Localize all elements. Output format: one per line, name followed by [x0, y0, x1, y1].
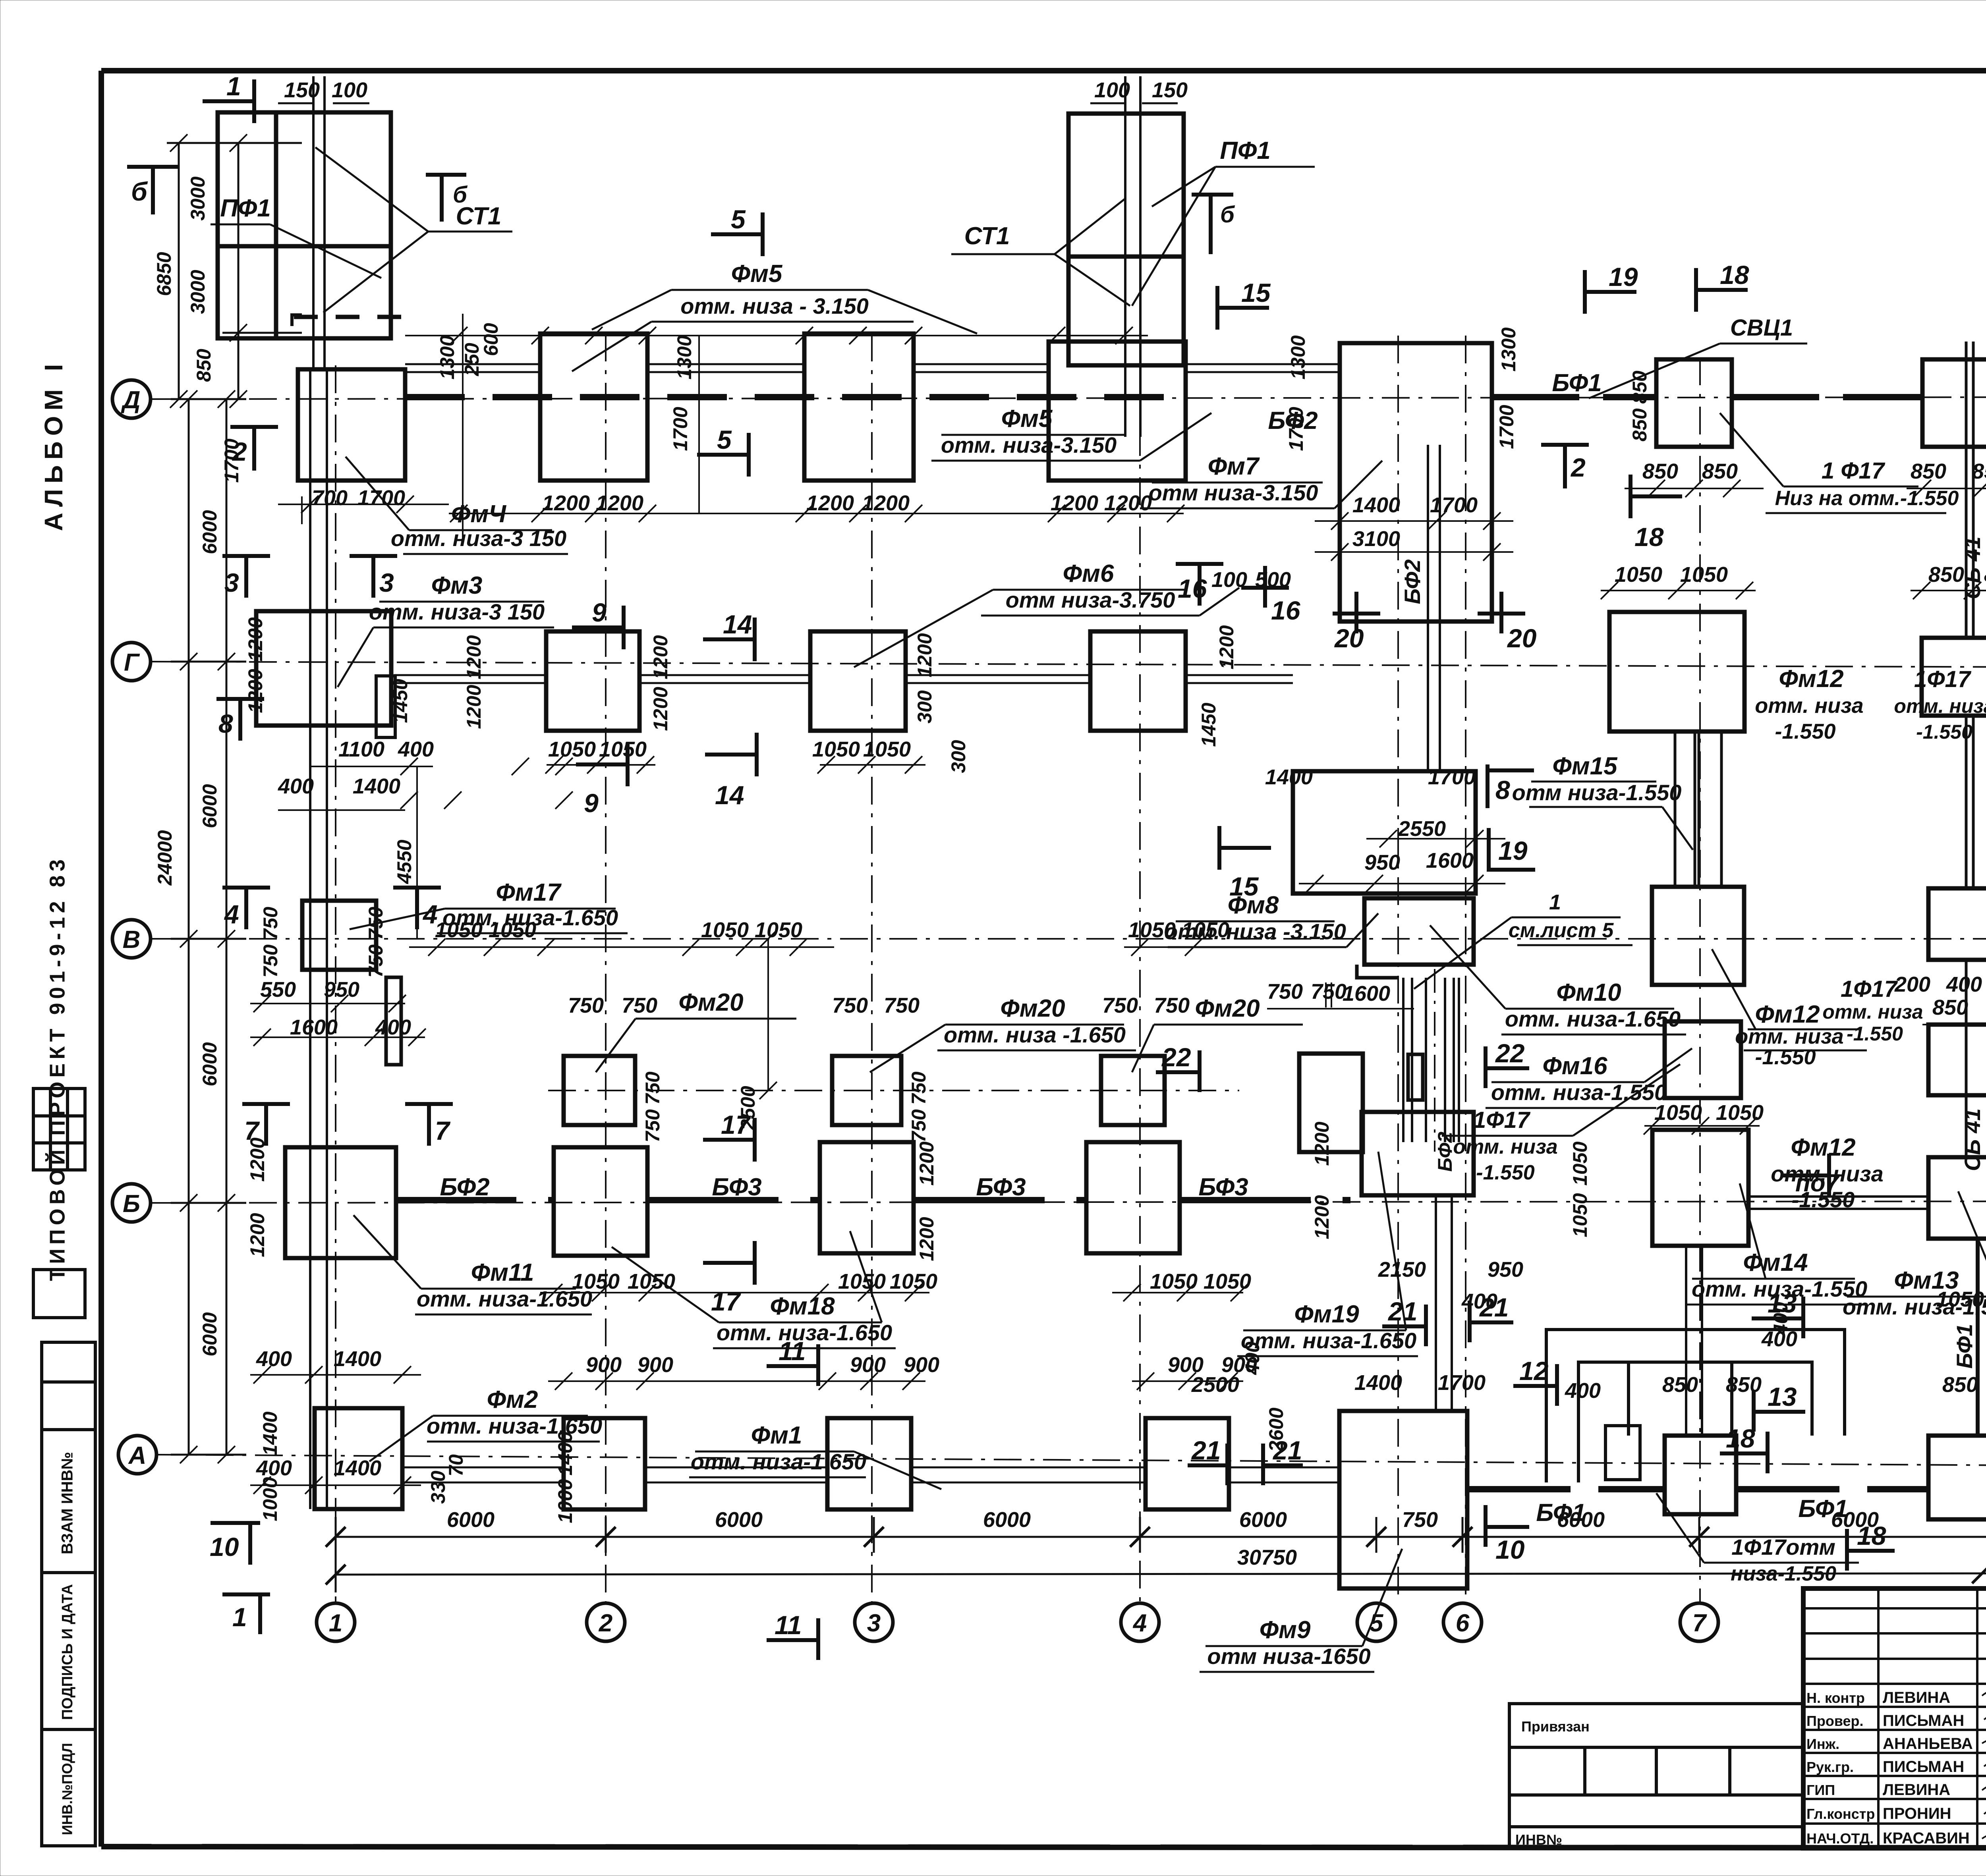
svg-text:150: 150 — [1152, 78, 1188, 102]
svg-text:1200: 1200 — [244, 669, 267, 713]
svg-text:А: А — [128, 1442, 147, 1469]
svg-text:1200: 1200 — [916, 1141, 938, 1185]
svg-text:150: 150 — [284, 78, 320, 102]
svg-text:750: 750 — [259, 907, 282, 940]
svg-text:7: 7 — [1692, 1610, 1707, 1637]
svg-text:6000: 6000 — [199, 1312, 221, 1356]
svg-text:ПОДПИСЬ И ДАТА: ПОДПИСЬ И ДАТА — [59, 1584, 76, 1720]
svg-text:Фм16: Фм16 — [1542, 1052, 1607, 1080]
left stamp column boxes — [33, 1089, 95, 1846]
beam по7 row Б twin — [1748, 1197, 1928, 1209]
svg-text:1300: 1300 — [673, 335, 695, 379]
svg-text:-1.550: -1.550 — [1916, 721, 1972, 743]
axis Б — [151, 1201, 1986, 1203]
marker 21 pair bottom — [1188, 1463, 1227, 1467]
svg-text:ЛЕВИНА: ЛЕВИНА — [1883, 1781, 1950, 1799]
svg-text:Привязан: Привязан — [1521, 1718, 1590, 1735]
block row Д axis8 — [1922, 359, 1986, 447]
svg-text:6000: 6000 — [199, 510, 221, 554]
svg-text:750: 750 — [908, 1071, 930, 1105]
svg-text:1300: 1300 — [1287, 335, 1309, 379]
block ФМ12 row Г axis7 — [1609, 612, 1745, 731]
svg-text:750: 750 — [832, 994, 868, 1017]
wall footing ПФ1 left — [218, 112, 391, 338]
row А twin beam lines — [402, 1467, 1339, 1482]
svg-text:750: 750 — [1267, 980, 1303, 1004]
marker 22 pair — [1156, 1070, 1200, 1074]
marker 9 — [572, 625, 624, 629]
svg-text:400: 400 — [375, 1015, 411, 1039]
svg-text:11: 11 — [779, 1336, 806, 1366]
svg-text:6000: 6000 — [447, 1508, 495, 1532]
svg-text:Фм13: Фм13 — [1894, 1267, 1959, 1294]
svg-text:9: 9 — [584, 788, 599, 818]
block row А axis8 — [1928, 1436, 1986, 1519]
marker 11 pair — [767, 1364, 818, 1368]
svg-text:1400: 1400 — [334, 1347, 381, 1371]
svg-text:ПФ1: ПФ1 — [220, 195, 270, 222]
svg-text:Фм3: Фм3 — [431, 572, 483, 599]
svg-text:1050: 1050 — [701, 918, 749, 942]
svg-text:300: 300 — [914, 690, 936, 724]
svg-text:БФ2: БФ2 — [1400, 559, 1425, 604]
svg-text:900: 900 — [638, 1353, 673, 1377]
extra axis/dim details — [548, 1090, 1239, 1091]
svg-text:1700: 1700 — [1495, 405, 1518, 449]
svg-text:70: 70 — [445, 1454, 467, 1476]
svg-text:750: 750 — [641, 1071, 664, 1105]
marker 19 #2 — [1489, 868, 1535, 872]
svg-text:ПИСЬМАН: ПИСЬМАН — [1883, 1758, 1964, 1776]
svg-text:Фм9: Фм9 — [1260, 1616, 1311, 1644]
svg-text:3: 3 — [224, 568, 239, 597]
svg-text:3: 3 — [867, 1610, 881, 1637]
svg-text:400: 400 — [256, 1347, 292, 1371]
svg-text:Б: Б — [123, 1190, 140, 1218]
small pier block — [1408, 1054, 1423, 1100]
block row А axis4 — [1146, 1418, 1229, 1509]
block row В axis8 — [1928, 888, 1986, 960]
block ФМ20 #2 — [832, 1056, 901, 1125]
svg-text:1050: 1050 — [1716, 1101, 1764, 1125]
marker 2 right — [1541, 443, 1589, 447]
svg-text:750: 750 — [1402, 1508, 1438, 1532]
svg-text:БФ3: БФ3 — [1198, 1173, 1248, 1201]
marker 10 bottom left — [211, 1521, 260, 1525]
beam БФ2 row Д heavy dashes — [405, 394, 1186, 400]
svg-text:1Ф17отм: 1Ф17отм — [1731, 1534, 1835, 1559]
svg-text:100: 100 — [332, 78, 367, 102]
svg-text:3: 3 — [379, 568, 394, 597]
marker 1 top — [203, 99, 254, 103]
svg-text:отм низа-3.150: отм низа-3.150 — [1149, 480, 1318, 505]
svg-text:550: 550 — [260, 978, 296, 1002]
svg-text:Инж.: Инж. — [1806, 1736, 1839, 1752]
block ФМ18 row Б — [554, 1147, 647, 1256]
svg-text:1: 1 — [1549, 890, 1561, 914]
svg-text:1200: 1200 — [463, 635, 485, 679]
svg-text:Фм12: Фм12 — [1755, 1001, 1820, 1028]
svg-text:1200: 1200 — [463, 685, 485, 729]
wall footing ПФ1 right — [1068, 114, 1184, 365]
left dimension chain 24000/6000 — [171, 399, 246, 1455]
svg-text:950: 950 — [1488, 1258, 1523, 1282]
svg-text:1050: 1050 — [1204, 1270, 1251, 1293]
block row Г axis1 — [256, 611, 391, 726]
svg-text:22: 22 — [1161, 1042, 1191, 1072]
block ФМ11 row Б axis1 — [285, 1147, 396, 1258]
block ФМ20 #1 — [564, 1056, 635, 1125]
svg-text:2: 2 — [232, 437, 247, 466]
block ФМ17 row В axis1 — [302, 901, 376, 970]
svg-text:7: 7 — [244, 1116, 260, 1145]
svg-text:СТ1: СТ1 — [964, 222, 1010, 250]
svg-text:7: 7 — [435, 1116, 451, 1145]
marker 3 left pair — [222, 554, 270, 558]
block row А axis7 — [1665, 1436, 1736, 1514]
svg-text:отм. низа: отм. низа — [1894, 695, 1986, 717]
svg-text:6: 6 — [1456, 1610, 1470, 1637]
axis 4 — [1139, 83, 1141, 1603]
svg-text:3000: 3000 — [187, 270, 209, 314]
svg-text:750: 750 — [908, 1109, 930, 1143]
svg-text:отм. низа: отм. низа — [1735, 1025, 1843, 1048]
svg-text:СБ 41: СБ 41 — [1960, 1108, 1985, 1171]
svg-text:ТИПОВОЙ ПРОЕКТ 901-9-12 83: ТИПОВОЙ ПРОЕКТ 901-9-12 83 — [45, 855, 69, 1281]
wall lines ПФ1 left top — [313, 76, 325, 369]
svg-text:1200: 1200 — [649, 687, 672, 731]
svg-text:900: 900 — [1168, 1353, 1204, 1377]
top wall dims — [284, 78, 1188, 102]
svg-text:-1.550: -1.550 — [1476, 1161, 1535, 1184]
marker 19 top — [1585, 290, 1636, 294]
svg-text:16: 16 — [1271, 596, 1301, 625]
dimension lines row Д — [278, 314, 1184, 540]
svg-text:ЛЕВИНА: ЛЕВИНА — [1883, 1689, 1950, 1706]
axis number circles — [317, 1542, 1986, 1641]
svg-text:АЛЬБОМ I: АЛЬБОМ I — [39, 359, 68, 531]
svg-text:1000: 1000 — [554, 1479, 576, 1523]
svg-text:30750: 30750 — [1237, 1546, 1297, 1569]
svg-text:1400: 1400 — [1354, 1371, 1402, 1395]
svg-text:10: 10 — [210, 1532, 239, 1561]
axis 7 — [1699, 357, 1701, 1603]
svg-text:2: 2 — [1570, 453, 1586, 482]
axis Д — [151, 397, 1986, 399]
central deep block ФМ8/ФМ10 — [1293, 771, 1476, 894]
block ФМ19 row Б axis5 — [1362, 1112, 1474, 1195]
svg-text:Фм2: Фм2 — [487, 1386, 538, 1413]
svg-text:1100: 1100 — [338, 737, 384, 761]
svg-text:950: 950 — [324, 978, 359, 1002]
svg-text:1200: 1200 — [244, 617, 267, 661]
svg-text:БФ1: БФ1 — [1536, 1499, 1586, 1527]
beam БФ1 row Д right heavy — [1492, 394, 1656, 400]
svg-text:Фм5: Фм5 — [731, 260, 783, 288]
svg-text:отм. низа -3.150: отм. низа -3.150 — [1164, 919, 1346, 944]
marker 8 left — [216, 697, 264, 701]
row Г twin beam lines — [394, 675, 1293, 683]
svg-text:850: 850 — [1932, 996, 1968, 1019]
svg-text:б: б — [131, 177, 148, 206]
svg-text:отм низа-3.750: отм низа-3.750 — [1006, 587, 1175, 612]
beam БФ1 row А heavy — [1467, 1486, 1665, 1492]
svg-text:1200: 1200 — [914, 633, 936, 677]
svg-text:14: 14 — [723, 610, 752, 639]
svg-text:14: 14 — [715, 780, 744, 810]
signatures squiggles — [1982, 1687, 1986, 1842]
svg-text:1 Ф17: 1 Ф17 — [1822, 458, 1886, 484]
svg-text:4: 4 — [422, 899, 438, 929]
svg-text:ИНВ№: ИНВ№ — [1515, 1832, 1562, 1848]
block row Г axis4 — [1090, 631, 1186, 731]
svg-text:1: 1 — [329, 1610, 342, 1637]
svg-text:1: 1 — [226, 71, 241, 101]
marker 18 top — [1696, 288, 1748, 292]
svg-text:1200: 1200 — [246, 1213, 269, 1257]
marker 15 top — [1217, 306, 1269, 310]
svg-text:1200: 1200 — [596, 491, 643, 515]
svg-text:3000: 3000 — [187, 176, 209, 220]
axis В — [151, 938, 1986, 940]
dim line 30750 — [336, 1573, 1986, 1575]
block ФМ12 row Б axis7 — [1652, 1130, 1748, 1246]
svg-text:ПИСЬМАН: ПИСЬМАН — [1883, 1712, 1964, 1729]
svg-text:БФ3: БФ3 — [712, 1173, 761, 1201]
svg-text:1400: 1400 — [1352, 493, 1400, 517]
svg-text:БФ1: БФ1 — [1798, 1495, 1848, 1523]
svg-text:850: 850 — [1972, 459, 1986, 483]
svg-text:1050: 1050 — [599, 737, 647, 761]
svg-text:1050: 1050 — [1569, 1193, 1591, 1237]
block row Д axis1 — [298, 369, 405, 481]
axis Г — [151, 662, 1986, 667]
svg-text:Фм14: Фм14 — [1743, 1249, 1808, 1276]
svg-text:750: 750 — [1311, 980, 1347, 1004]
top-left dimension chain 6850/3000/3000/850 — [167, 143, 302, 399]
svg-text:1200: 1200 — [1311, 1121, 1333, 1166]
svg-text:отм низа-1.550: отм низа-1.550 — [1512, 780, 1682, 805]
svg-text:21: 21 — [1191, 1436, 1221, 1465]
svg-text:Фм1: Фм1 — [751, 1422, 802, 1449]
svg-text:-1.550: -1.550 — [1775, 720, 1835, 743]
svg-text:400: 400 — [1946, 973, 1982, 996]
row Д twin beam lines — [405, 364, 1340, 372]
svg-text:отм. низа-1 650: отм. низа-1 650 — [691, 1449, 866, 1474]
svg-text:17: 17 — [711, 1287, 742, 1316]
svg-text:850: 850 — [1662, 1373, 1698, 1397]
block ФМ9 row А axis5 — [1339, 1411, 1467, 1588]
svg-text:отм. низа: отм. низа — [1755, 694, 1863, 718]
svg-text:21: 21 — [1479, 1293, 1509, 1322]
svg-text:4: 4 — [224, 899, 239, 929]
svg-text:-1.550: -1.550 — [1847, 1023, 1903, 1045]
beam БФ2 row Б heavy — [397, 1197, 554, 1203]
svg-text:1050: 1050 — [1680, 563, 1728, 587]
svg-text:Низ на отм.-1.550: Низ на отм.-1.550 — [1775, 487, 1959, 510]
axis letter circles — [112, 380, 156, 1474]
svg-text:Фм7: Фм7 — [1208, 453, 1260, 480]
dimension lines row Б — [540, 1284, 1248, 1301]
marker 4 pair — [222, 886, 270, 890]
svg-text:ИНВ.№ПОДЛ: ИНВ.№ПОДЛ — [59, 1743, 75, 1835]
svg-text:850: 850 — [193, 349, 215, 382]
svg-text:15: 15 — [1241, 278, 1271, 307]
svg-text:1050: 1050 — [548, 737, 596, 761]
svg-text:300: 300 — [947, 740, 970, 773]
block ФМ16 — [1665, 1021, 1741, 1098]
block row Б axis4 — [1086, 1142, 1180, 1253]
marker б at СТ1 left — [426, 173, 466, 177]
svg-text:4: 4 — [1132, 1610, 1147, 1637]
svg-text:1600: 1600 — [290, 1015, 338, 1039]
svg-text:6000: 6000 — [983, 1508, 1031, 1532]
svg-text:850: 850 — [1642, 459, 1678, 483]
block ФМ18 row Б #2 — [820, 1142, 914, 1253]
svg-text:Фм12: Фм12 — [1779, 665, 1843, 693]
svg-text:400: 400 — [1565, 1379, 1601, 1403]
U-shaped retaining wall structure — [1546, 1330, 1845, 1482]
central wall bundle lower — [1436, 1195, 1452, 1411]
svg-text:750: 750 — [365, 944, 387, 978]
svg-text:Фм17: Фм17 — [496, 879, 562, 906]
svg-text:низа-1.550: низа-1.550 — [1731, 1562, 1836, 1585]
svg-text:см.лист 5: см.лист 5 — [1509, 919, 1614, 942]
beam БФ3 row Б heavy — [647, 1197, 820, 1203]
svg-text:1400: 1400 — [334, 1456, 381, 1480]
svg-text:21: 21 — [1272, 1436, 1302, 1465]
svg-text:850: 850 — [1928, 563, 1964, 587]
dim line 6000s — [336, 1536, 1986, 1538]
block ФМ13 row Б axis8 — [1928, 1157, 1986, 1239]
axis 5 — [1397, 336, 1399, 1603]
svg-text:-1.550: -1.550 — [1755, 1045, 1816, 1069]
svg-text:ГИП: ГИП — [1806, 1782, 1835, 1798]
svg-text:Н. контр: Н. контр — [1806, 1690, 1865, 1706]
svg-text:900: 900 — [850, 1353, 886, 1377]
marker 17 pair — [703, 1138, 755, 1142]
svg-text:750: 750 — [1154, 994, 1190, 1017]
svg-text:Фм19: Фм19 — [1294, 1301, 1359, 1328]
block ФМ1 row А axis2 — [564, 1418, 645, 1509]
svg-text:24000: 24000 — [154, 830, 176, 886]
svg-text:1200: 1200 — [1311, 1195, 1333, 1239]
svg-text:17: 17 — [721, 1110, 752, 1139]
svg-text:850: 850 — [1726, 1373, 1762, 1397]
svg-text:750: 750 — [1102, 994, 1138, 1017]
svg-text:1400: 1400 — [1265, 765, 1313, 789]
marker 7 pair — [242, 1102, 290, 1106]
svg-text:750: 750 — [568, 994, 604, 1017]
svg-text:Рук.гр.: Рук.гр. — [1806, 1759, 1854, 1775]
svg-text:1050: 1050 — [1150, 1270, 1198, 1293]
wall bundle below ФМ12 — [1686, 1246, 1702, 1436]
svg-text:отм. низа-3 150: отм. низа-3 150 — [369, 599, 545, 624]
svg-text:В: В — [123, 926, 141, 953]
svg-text:1200: 1200 — [649, 635, 672, 679]
svg-text:1200: 1200 — [1104, 491, 1152, 515]
svg-text:Фм10: Фм10 — [1556, 979, 1621, 1006]
marker 14 — [703, 637, 755, 641]
svg-text:отм. низа - 3.150: отм. низа - 3.150 — [680, 293, 868, 318]
svg-text:Фм20: Фм20 — [1195, 995, 1260, 1022]
svg-text:1400: 1400 — [353, 774, 400, 798]
svg-text:5: 5 — [717, 425, 732, 454]
svg-text:БФ2: БФ2 — [1268, 407, 1318, 434]
svg-text:4550: 4550 — [393, 840, 415, 884]
svg-text:19: 19 — [1609, 262, 1638, 291]
svg-text:1450: 1450 — [1198, 703, 1220, 747]
svg-text:400: 400 — [398, 737, 434, 761]
svg-text:18: 18 — [1857, 1521, 1886, 1550]
svg-text:НАЧ.ОТД.: НАЧ.ОТД. — [1806, 1830, 1874, 1847]
svg-text:16: 16 — [1178, 574, 1207, 603]
svg-text:10: 10 — [1495, 1535, 1525, 1564]
block ФМ1 row А axis3 — [827, 1418, 911, 1509]
svg-text:отм. низа-1.650: отм. низа-1.650 — [1505, 1006, 1681, 1031]
svg-text:Д: Д — [121, 386, 141, 414]
svg-text:2550: 2550 — [1398, 817, 1446, 841]
privyazan table — [1509, 1704, 1803, 1848]
svg-text:1050: 1050 — [812, 737, 860, 761]
marker 2 left — [230, 425, 278, 429]
wall bundle axis7 Г to В — [1675, 731, 1721, 887]
marker 5 top — [711, 232, 763, 236]
block ФМ2 row А axis1 — [315, 1408, 402, 1509]
svg-text:900: 900 — [904, 1353, 939, 1377]
svg-text:отм низа-1650: отм низа-1650 — [1207, 1644, 1370, 1669]
svg-text:Фм20: Фм20 — [678, 989, 743, 1016]
svg-text:750: 750 — [622, 994, 657, 1017]
svg-text:1Ф17: 1Ф17 — [1473, 1107, 1531, 1133]
СБ41 wall line right — [1966, 342, 1973, 1157]
axis 2 — [605, 334, 607, 1603]
marker б left — [127, 165, 179, 169]
svg-text:18: 18 — [1634, 522, 1664, 552]
marker 15 #2 — [1219, 846, 1271, 850]
block ФМ6 row Г #2 — [810, 631, 906, 731]
svg-text:1600: 1600 — [1343, 982, 1390, 1006]
marker б right — [1192, 193, 1233, 197]
svg-text:1700: 1700 — [1428, 765, 1476, 789]
svg-text:КРАСАВИН: КРАСАВИН — [1883, 1830, 1970, 1847]
dimension lines row А — [250, 1366, 1243, 1494]
svg-text:13: 13 — [1768, 1289, 1797, 1318]
svg-text:750: 750 — [259, 944, 282, 978]
svg-text:6000: 6000 — [199, 784, 221, 828]
svg-text:8: 8 — [1495, 775, 1510, 805]
svg-text:18: 18 — [1726, 1424, 1755, 1453]
svg-text:б: б — [453, 182, 468, 208]
block row В axis8 lower — [1928, 1025, 1986, 1095]
svg-text:1600: 1600 — [1426, 849, 1474, 872]
svg-text:отм. низа-1.650: отм. низа-1.650 — [427, 1413, 602, 1438]
БФ2 wall bundle below ФМ7 — [1427, 445, 1429, 771]
svg-text:БФ1: БФ1 — [1552, 369, 1602, 397]
block row В axis7 — [1652, 887, 1744, 985]
svg-text:15: 15 — [1229, 872, 1259, 901]
svg-text:400: 400 — [278, 774, 314, 798]
svg-text:ФмЧ: ФмЧ — [451, 500, 506, 528]
svg-text:БФ2: БФ2 — [440, 1173, 489, 1201]
svg-text:1200: 1200 — [542, 491, 590, 515]
svg-text:1050: 1050 — [863, 737, 911, 761]
block row Д axis7 — [1656, 359, 1732, 447]
svg-text:отм. низа: отм. низа — [1822, 1001, 1923, 1023]
svg-text:6000: 6000 — [1239, 1508, 1287, 1532]
block ФМ6 row Г — [546, 631, 639, 731]
svg-text:8: 8 — [218, 709, 233, 738]
